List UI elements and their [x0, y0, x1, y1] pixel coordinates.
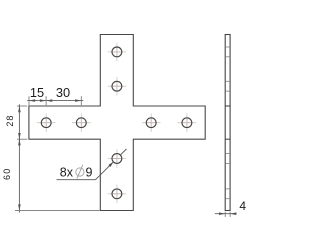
- side view outline: [225, 35, 230, 211]
- hole H: [112, 189, 122, 199]
- dimension 28 extension lines: [17, 106, 27, 139]
- side view hole hidden lines: [225, 47, 230, 199]
- svg-text:15: 15: [30, 85, 44, 100]
- dimension 15/30 extension lines: [29, 96, 81, 105]
- dimension 28 arrows: [18, 106, 21, 139]
- svg-text:9: 9: [86, 166, 93, 180]
- leader line 8x dia9: [57, 149, 127, 180]
- dimension 15/30 arrows: [29, 99, 81, 102]
- dimension 15/30 line: [27, 100, 83, 102]
- hole D: [182, 118, 192, 128]
- crosshair hole F: [108, 77, 127, 96]
- dimension 4 line: [215, 213, 237, 215]
- svg-text:30: 30: [56, 85, 70, 100]
- hole F: [112, 81, 122, 91]
- hole B: [76, 118, 86, 128]
- dimension 4 extension lines: [225, 212, 230, 217]
- hole G: [112, 154, 122, 164]
- crosshair hole G: [108, 149, 127, 168]
- dimension 60 line: [18, 137, 20, 212]
- crosshair hole D: [178, 113, 197, 132]
- crosshair hole C: [142, 113, 161, 132]
- crosshair hole A: [37, 113, 56, 132]
- crosshair hole B: [72, 113, 91, 132]
- plate outline (front view, cross shape): [29, 35, 205, 211]
- red center marks: [42, 48, 191, 198]
- svg-text:60: 60: [2, 167, 12, 180]
- svg-text:4: 4: [239, 199, 246, 213]
- diameter symbol: [76, 165, 84, 179]
- hole C: [146, 118, 156, 128]
- hole E: [112, 47, 122, 57]
- crosshair hole H: [108, 185, 127, 204]
- crosshair hole E: [108, 43, 127, 62]
- dimension 60 extension line: [15, 210, 100, 212]
- dimension 60 arrows: [18, 139, 21, 210]
- dimension 28 line: [18, 104, 20, 141]
- hole A: [41, 118, 51, 128]
- side view edge lines of horizontal arm: [225, 106, 230, 139]
- svg-text:28: 28: [5, 115, 15, 127]
- dimension 4 arrows: [219, 212, 236, 215]
- leader arrow: [108, 162, 113, 167]
- svg-text:8x: 8x: [60, 166, 74, 180]
